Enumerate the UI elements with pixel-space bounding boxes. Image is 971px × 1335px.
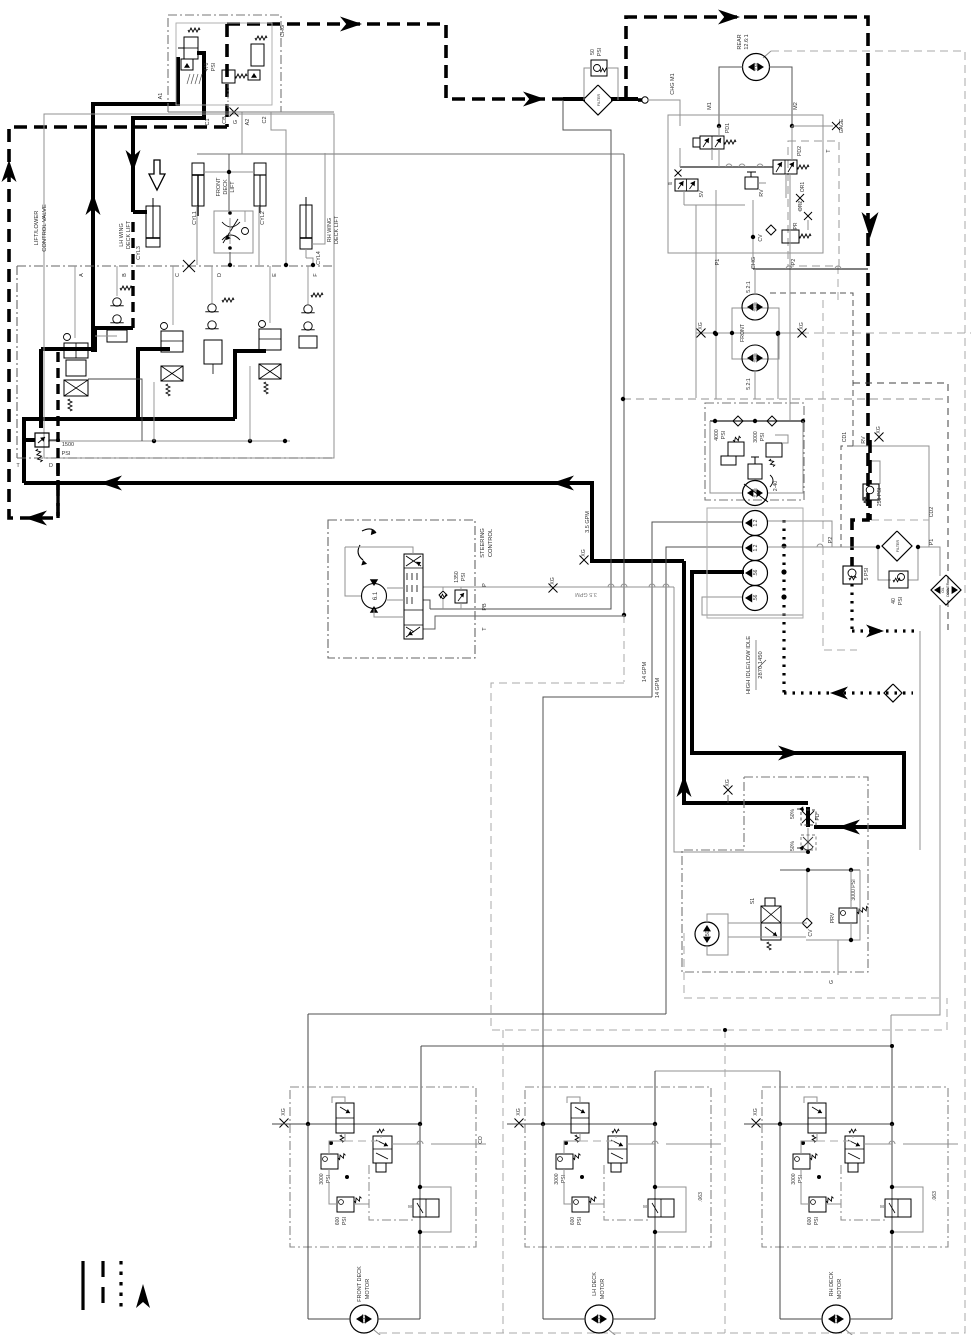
svg-text:CD1: CD1 xyxy=(842,432,848,442)
xg tap xyxy=(515,1119,524,1128)
svg-text:3000: 3000 xyxy=(319,1173,325,1184)
wire: thick dotted from 5psi switch xyxy=(850,584,853,631)
svg-text:LIFT/LOWER: LIFT/LOWER xyxy=(34,211,40,246)
valve section A xyxy=(64,343,88,358)
pressure bus xyxy=(680,166,773,168)
svg-text:PSI: PSI xyxy=(577,1217,583,1225)
svg-text:DECK LIFT: DECK LIFT xyxy=(334,215,340,244)
valve section F checks xyxy=(304,305,312,313)
xg near FD xyxy=(724,786,733,795)
arrow left on dotted xyxy=(830,687,848,700)
svg-text:M: M xyxy=(408,1204,412,1209)
wire: pump1.2 out xyxy=(768,521,832,547)
steering wheel arcs xyxy=(362,529,376,533)
valve A2 xyxy=(251,44,264,66)
svg-text:40: 40 xyxy=(891,598,897,604)
wire: steering P line to FD area riser xyxy=(423,586,674,588)
svg-text:C2: C2 xyxy=(262,116,268,123)
flow control box xyxy=(214,211,253,253)
svg-text:CHG M1: CHG M1 xyxy=(670,73,676,94)
deck block boundary xyxy=(525,1087,711,1247)
valve SV xyxy=(675,179,698,191)
arrow down right side dashed xyxy=(862,212,879,238)
svg-text:XG: XG xyxy=(581,549,587,557)
wire: thick solid down to 1500psi relief xyxy=(39,349,43,428)
svg-text:CB: CB xyxy=(222,116,228,124)
motor connections xyxy=(780,1318,822,1320)
arrow left on return near valve xyxy=(100,476,122,491)
svg-text:LH WING: LH WING xyxy=(119,223,125,247)
wire: right margin gray dashed xyxy=(378,51,965,1333)
wire: deck riser x=543 xyxy=(543,697,652,1124)
svg-text:PSI: PSI xyxy=(342,1217,348,1225)
svg-text:CV: CV xyxy=(758,234,764,242)
wire: thick solid pump to flow divider loop xyxy=(692,572,904,827)
svg-text:STEERING: STEERING xyxy=(480,528,486,558)
svg-text:CONTROL: CONTROL xyxy=(488,528,494,557)
svg-text:XG: XG xyxy=(725,779,731,787)
svg-text:14 GPM: 14 GPM xyxy=(642,662,648,683)
svg-text:CYL3: CYL3 xyxy=(136,246,142,260)
wire: branch to section E xyxy=(235,351,266,419)
svg-text:5.2:1: 5.2:1 xyxy=(746,378,752,390)
svg-text:.063: .063 xyxy=(698,1192,704,1202)
svg-text:3000: 3000 xyxy=(554,1173,560,1184)
svg-text:CONTROL VALVE: CONTROL VALVE xyxy=(42,204,48,252)
valve PR with CV xyxy=(782,230,799,243)
svg-text:COOLER: COOLER xyxy=(946,582,950,597)
rear wheel motor 12.6:1 xyxy=(743,54,770,81)
wire: thick solid supply from valve A1 left xyxy=(93,57,178,352)
svg-text:XG: XG xyxy=(698,322,704,330)
relief 3000 psi xyxy=(321,1154,338,1169)
relief valve 470psi xyxy=(222,70,235,83)
svg-text:OR2: OR2 xyxy=(798,201,804,212)
valve section C xyxy=(161,331,183,352)
svg-text:XG: XG xyxy=(281,1108,287,1116)
svg-text:CD2: CD2 xyxy=(929,507,935,517)
arrow left into flow divider xyxy=(838,820,860,835)
svg-text:OIL: OIL xyxy=(941,587,945,593)
svg-text:A: A xyxy=(79,273,85,277)
check valve cluster xyxy=(336,1103,354,1133)
front motor box xyxy=(732,308,779,359)
svg-text:P: P xyxy=(482,583,488,587)
svg-text:S1: S1 xyxy=(750,898,756,904)
pump internal lines xyxy=(710,421,742,493)
svg-text:LH DECK: LH DECK xyxy=(592,1272,598,1296)
wire: thick dashed from lift valve left loop xyxy=(9,127,227,518)
valve PD1 xyxy=(700,136,724,149)
arrow up to steering supply xyxy=(677,775,692,797)
motor connections xyxy=(308,1318,350,1320)
top block box xyxy=(168,15,281,112)
svg-text:.56: .56 xyxy=(753,594,759,601)
svg-text:MOTOR: MOTOR xyxy=(600,1279,606,1299)
brake loop xyxy=(420,1187,451,1232)
xg taps on 333 bus xyxy=(697,329,706,338)
deck motor xyxy=(822,1305,850,1333)
svg-text:P1: P1 xyxy=(929,539,935,546)
svg-text:3000: 3000 xyxy=(753,431,759,443)
wire: filter bypass 40psi xyxy=(878,547,891,580)
return filter diamond xyxy=(882,531,912,561)
svg-text:PR: PR xyxy=(793,222,799,229)
wire: deck bus y=1014 xyxy=(308,1013,666,1015)
relief 3000 psi xyxy=(556,1154,573,1169)
svg-text:PD1: PD1 xyxy=(725,123,731,133)
svg-text:P2: P2 xyxy=(828,537,834,544)
xg tap xyxy=(752,1119,761,1128)
svg-text:6.1: 6.1 xyxy=(373,591,379,600)
right return vertical xyxy=(654,1124,656,1319)
diamond on dotted line xyxy=(884,684,902,702)
svg-text:470: 470 xyxy=(204,63,210,72)
wire: governor line down to aux suction xyxy=(919,631,921,850)
svg-text:PSI: PSI xyxy=(211,63,217,71)
svg-text:PRV: PRV xyxy=(830,912,836,923)
valve section D xyxy=(208,304,216,312)
lift/lower control valve block boundary xyxy=(44,114,334,458)
svg-text:P2: P2 xyxy=(791,259,797,266)
traction internal wiring xyxy=(718,126,720,136)
steering control block xyxy=(328,520,475,658)
svg-text:CHG: CHG xyxy=(751,257,757,269)
steering wheel to valve link xyxy=(365,547,413,554)
chg m1 connection circle xyxy=(642,97,648,103)
internal wiring xyxy=(564,1133,580,1154)
cylinder CYL1 xyxy=(192,163,204,206)
svg-text:E: E xyxy=(272,273,278,277)
relief 1350 psi xyxy=(439,591,447,599)
svg-text:DECK: DECK xyxy=(223,179,229,195)
svg-text:FRONT: FRONT xyxy=(216,177,222,197)
xg on P line xyxy=(549,584,558,593)
svg-text:HIGH IDLE/LOW IDLE: HIGH IDLE/LOW IDLE xyxy=(746,636,752,694)
relief 600 psi xyxy=(809,1197,826,1212)
left supply vertical xyxy=(542,1124,544,1319)
valve RV xyxy=(745,177,758,189)
solenoid valve xyxy=(608,1136,627,1163)
svg-text:PSI: PSI xyxy=(814,1217,820,1225)
svg-text:RH DECK: RH DECK xyxy=(829,1271,835,1296)
svg-text:5.2:1: 5.2:1 xyxy=(746,281,752,293)
svg-text:1.2: 1.2 xyxy=(753,544,759,551)
svg-text:1.17: 1.17 xyxy=(834,1314,840,1324)
svg-text:P1: P1 xyxy=(715,259,721,266)
svg-text:4000: 4000 xyxy=(714,429,720,441)
brake valve xyxy=(413,1199,439,1217)
wire: 14gpm feed 2 x=666 xyxy=(666,547,742,1014)
left supply vertical xyxy=(307,1124,309,1319)
legend dotted line xyxy=(119,1261,122,1310)
svg-text:M1: M1 xyxy=(707,102,713,110)
thick dashes through RV xyxy=(868,440,872,484)
svg-text:FRONT DECK: FRONT DECK xyxy=(357,1266,363,1302)
svg-text:14 GPM: 14 GPM xyxy=(655,678,661,699)
drain hatch under A1 xyxy=(187,74,190,84)
solenoid valve xyxy=(845,1136,864,1163)
wire: between-deck gray dashed separators xyxy=(724,1030,726,1333)
svg-text:RH WING: RH WING xyxy=(327,218,333,242)
wire chg m1 to traction xyxy=(648,100,680,126)
svg-text:DECK LIFT: DECK LIFT xyxy=(126,220,132,249)
port G xsym xyxy=(230,108,239,117)
wire: P2 charge line xyxy=(768,546,878,548)
block internal gray wiring xyxy=(48,440,290,442)
wire: gray dashed bus y=399 xyxy=(623,398,948,400)
arrow top right dashed xyxy=(718,10,740,25)
svg-text:C: C xyxy=(175,273,181,277)
wire: gray dashed x=870 to 852 region lines xyxy=(871,519,929,521)
svg-text:XG: XG xyxy=(799,322,805,330)
wire: thick solid supply bus y=419 xyxy=(24,419,235,483)
flow divider 50/50 xyxy=(801,810,816,825)
svg-text:600: 600 xyxy=(570,1217,576,1226)
wire: thick to CYL3 port xyxy=(133,210,147,214)
arrow on dashed line entering filter xyxy=(523,92,545,107)
wire pump to S1 xyxy=(728,922,761,924)
svg-text:RV: RV xyxy=(861,436,867,444)
svg-text:MOTOR: MOTOR xyxy=(365,1279,371,1299)
xg at thick corner xyxy=(580,556,589,565)
oil cooler diamond xyxy=(931,575,961,605)
arrow on top dashed line xyxy=(340,17,362,32)
svg-text:FILTER: FILTER xyxy=(597,94,601,107)
svg-text:FD: FD xyxy=(815,813,821,820)
svg-text:1350: 1350 xyxy=(454,571,460,583)
wire: P1 line down right side xyxy=(918,547,940,576)
svg-text:2-40: 2-40 xyxy=(773,481,779,491)
check CV xyxy=(802,918,812,928)
svg-text:LIFT: LIFT xyxy=(230,181,236,193)
wire: traction P1 P2 to pump block xyxy=(715,190,717,399)
cylinder head bus xyxy=(204,171,254,173)
svg-text:12.6:1: 12.6:1 xyxy=(744,34,750,49)
brake valve xyxy=(885,1199,911,1217)
check valve cluster xyxy=(808,1103,826,1133)
thick dashed D port line xyxy=(56,352,59,518)
svg-text:XG: XG xyxy=(516,1108,522,1116)
wire: thick solid section A distribution xyxy=(41,347,95,351)
wire: deck block risers xyxy=(307,1014,309,1124)
right return vertical xyxy=(891,1124,893,1319)
wire: aux line from .56 pump2 xyxy=(702,597,803,615)
relief 3000 psi xyxy=(766,443,782,457)
relief 600 psi xyxy=(337,1197,354,1212)
svg-text:3000: 3000 xyxy=(791,1173,797,1184)
main feed line xyxy=(744,1123,892,1125)
svg-text:1.17: 1.17 xyxy=(597,1314,603,1324)
legend arrow xyxy=(136,1284,150,1308)
servo box xyxy=(748,464,762,479)
wire: filter drain to steering PB x=611 xyxy=(430,100,611,609)
svg-text:600: 600 xyxy=(807,1217,813,1226)
deck block boundary xyxy=(762,1087,948,1247)
40 psi check xyxy=(889,571,908,588)
svg-text:CO: CO xyxy=(478,1136,484,1144)
A2 C2 drop lines xyxy=(271,112,286,265)
arrow up on thick solid xyxy=(86,193,101,215)
wire: gray dashed T drop from traction xyxy=(837,266,839,300)
svg-text:3000 PSI: 3000 PSI xyxy=(851,879,857,900)
relief 4000 psi xyxy=(728,442,744,456)
wire: deck bus y=1071 xyxy=(655,1070,780,1072)
left supply vertical xyxy=(779,1124,781,1319)
brake loop xyxy=(655,1187,686,1232)
wire: CD2 line xyxy=(853,446,929,547)
svg-text:.50: .50 xyxy=(705,930,711,937)
main feed line xyxy=(272,1123,420,1125)
svg-text:G: G xyxy=(829,980,835,984)
svg-text:M2: M2 xyxy=(793,102,799,110)
internal wiring xyxy=(329,1133,345,1154)
arrow right on pump output xyxy=(778,746,800,761)
svg-text:SV: SV xyxy=(699,190,705,197)
legend dashed line xyxy=(101,1261,104,1310)
wire: thick dashed CYL3 rod line down to section B xyxy=(131,222,134,328)
charge pump stack box xyxy=(707,508,803,618)
brake valve xyxy=(648,1199,674,1217)
svg-text:2 M: 2 M xyxy=(754,63,759,71)
arrow up left dashed xyxy=(2,160,17,182)
hollow arrow xyxy=(149,160,165,190)
svg-text:OR1: OR1 xyxy=(800,182,806,193)
motor M1 M2 lines xyxy=(719,67,743,126)
wire: solid stubs at filter xyxy=(563,97,585,101)
svg-text:PSI: PSI xyxy=(62,451,71,457)
svg-text:A1: A1 xyxy=(158,93,164,100)
wire: CD1 drop xyxy=(841,446,853,547)
pump group box xyxy=(705,403,804,500)
svg-text:G: G xyxy=(233,120,239,124)
wire: aux block gray dashed xyxy=(684,933,940,998)
deck block boundary xyxy=(290,1087,476,1247)
wire: thick solid long return y=483 from right xyxy=(24,483,684,561)
traction block box xyxy=(668,115,823,253)
arrow right on dotted xyxy=(866,625,884,638)
svg-text:CYL2: CYL2 xyxy=(260,211,266,225)
svg-text:XG: XG xyxy=(876,426,882,434)
steering valve stack xyxy=(404,554,423,639)
svg-text:3.5 GPM: 3.5 GPM xyxy=(575,591,597,597)
relief valve 1500 psi xyxy=(35,433,49,447)
svg-text:.063: .063 xyxy=(932,1191,938,1201)
wire: gray dashed bus y=333 xyxy=(697,332,971,334)
wire: thick dotted servo line from pump xyxy=(782,520,785,693)
valve section B checks xyxy=(113,298,121,306)
svg-text:3.5 GPM: 3.5 GPM xyxy=(585,511,591,533)
wire: deck bus y=1046 xyxy=(421,1045,892,1047)
5 psi switch xyxy=(843,566,862,584)
main feed line xyxy=(507,1123,655,1125)
wire: branch to section C xyxy=(138,349,170,419)
RV 250 psi relief xyxy=(863,484,879,500)
wire: thick dashed vertical from top line down to lift valve xyxy=(225,24,229,127)
gage tap xyxy=(792,125,833,127)
orifice OR1 xyxy=(796,194,804,202)
solenoid valve xyxy=(373,1136,392,1163)
arrow left bottom dashed xyxy=(25,511,47,526)
svg-text:XG: XG xyxy=(550,577,556,585)
brake loop xyxy=(892,1187,923,1232)
svg-text:PSI: PSI xyxy=(898,597,904,605)
RV bypass loop xyxy=(870,461,880,484)
svg-text:B: B xyxy=(122,273,128,277)
svg-text:.56: .56 xyxy=(753,569,759,576)
svg-text:250 PSI: 250 PSI xyxy=(877,488,883,506)
wire: return bus to steering T x=624 xyxy=(623,154,625,615)
svg-text:A2: A2 xyxy=(245,119,251,126)
svg-text:C1: C1 xyxy=(205,118,211,125)
svg-text:M: M xyxy=(880,1204,884,1209)
svg-text:50%: 50% xyxy=(790,840,796,851)
wire: black dashed case drain from traction xyxy=(770,293,853,446)
aux wiring to PRV xyxy=(781,922,807,924)
main pump 2.48 xyxy=(743,481,768,506)
svg-text:PSI: PSI xyxy=(461,573,467,581)
arrow down to CYL3 xyxy=(126,150,141,172)
svg-text:50%: 50% xyxy=(790,808,796,819)
x on boundary xyxy=(183,260,195,272)
cylinder CYL2 xyxy=(254,163,266,206)
relief 3000 psi xyxy=(793,1154,810,1169)
cylinder CYL4 RH wing xyxy=(300,205,312,249)
cylinder connections xyxy=(312,153,325,244)
solenoid valve A1 xyxy=(184,37,198,59)
pump bracket xyxy=(707,914,728,955)
valve section E xyxy=(259,329,281,350)
svg-text:CV: CV xyxy=(808,929,814,937)
bottom black line to right xyxy=(753,268,868,270)
svg-text:PB: PB xyxy=(482,603,488,611)
motor to valve lines xyxy=(387,587,404,589)
svg-text:CHG: CHG xyxy=(280,25,286,37)
deck motor xyxy=(585,1305,613,1333)
svg-text:PD2: PD2 xyxy=(797,146,803,156)
gray lines from A2/C2 ports xyxy=(241,112,243,154)
svg-text:1.17: 1.17 xyxy=(362,1314,368,1324)
wire: gray dashed return from steering down xyxy=(491,683,947,1030)
svg-text:MOTOR: MOTOR xyxy=(837,1279,843,1299)
svg-text:2.48: 2.48 xyxy=(753,353,759,363)
legend solid line xyxy=(81,1261,84,1310)
wire: thick dashed filter to top right corner xyxy=(626,17,868,566)
wire to G xyxy=(837,940,839,975)
valve S1 xyxy=(761,906,781,940)
svg-text:PSI: PSI xyxy=(721,431,727,439)
arrow left on return near steering xyxy=(552,476,574,491)
svg-text:5 PSI: 5 PSI xyxy=(864,568,870,581)
svg-text:REAR: REAR xyxy=(737,34,743,49)
svg-text:1.2: 1.2 xyxy=(753,519,759,526)
wire: FD below xyxy=(806,807,810,827)
svg-text:D: D xyxy=(217,273,223,277)
svg-text:PSI: PSI xyxy=(760,433,766,441)
wire: thick dashed charge line top-left to filter xyxy=(227,24,567,99)
svg-text:RV: RV xyxy=(759,189,765,197)
charge pump stack 1.2 1.2 .56 .56 xyxy=(743,511,768,536)
right return vertical xyxy=(419,1124,421,1319)
aux block dashdot box xyxy=(682,777,868,972)
wire: thick solid valve A1 right to LH wing cyl xyxy=(133,53,204,212)
svg-text:CYL4: CYL4 xyxy=(316,251,322,265)
svg-text:PSI: PSI xyxy=(597,48,603,56)
aux pump .50 xyxy=(695,922,719,946)
front motor bottom 2.48 xyxy=(742,345,768,371)
svg-text:FILTER: FILTER xyxy=(896,540,900,553)
charge filter diamond xyxy=(583,85,613,115)
